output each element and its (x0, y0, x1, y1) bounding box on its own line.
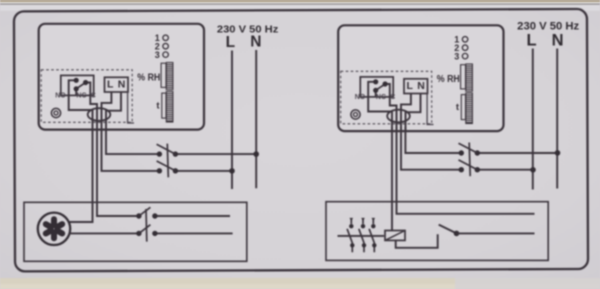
svg-text:L: L (526, 31, 536, 49)
svg-text:L: L (226, 34, 235, 51)
svg-text:N: N (250, 34, 261, 51)
svg-text:N: N (552, 31, 564, 49)
